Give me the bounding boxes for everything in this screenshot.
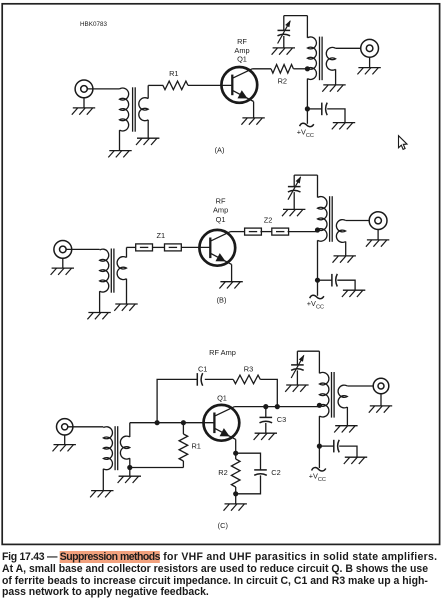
label R1 (C)	[191, 441, 200, 450]
svg-text:RF: RF	[237, 37, 247, 46]
ground	[114, 304, 137, 311]
wire	[345, 242, 347, 256]
label Q1 (C)	[217, 394, 227, 403]
capacitor C2	[254, 470, 267, 475]
wire	[283, 36, 285, 48]
svg-text:Z1: Z1	[156, 231, 165, 240]
wire	[317, 175, 319, 197]
connector J4 (output B)	[369, 212, 387, 230]
wire	[119, 130, 121, 151]
svg-text:+VCC: +VCC	[307, 299, 324, 311]
wire	[102, 469, 104, 491]
transformer T1 primary (A)	[120, 88, 129, 131]
svg-text:C2: C2	[271, 468, 280, 477]
wire	[336, 47, 361, 49]
svg-text:RF Amp: RF Amp	[209, 348, 236, 357]
wire	[62, 258, 64, 268]
connector J3 (input B)	[54, 241, 72, 259]
wire	[235, 494, 237, 504]
wire	[306, 16, 308, 38]
svg-text:R1: R1	[169, 69, 178, 78]
wire	[318, 351, 320, 373]
transformer T3 secondary (B)	[117, 247, 126, 279]
wire	[294, 174, 317, 176]
node (C3 tap)	[263, 404, 268, 409]
wire	[380, 394, 382, 406]
resistor R1 (C)	[179, 423, 188, 468]
node (collector tap B)	[315, 227, 320, 232]
node (bypass B)	[315, 278, 320, 283]
wire	[346, 407, 348, 426]
ground	[118, 476, 141, 483]
wire	[293, 175, 295, 187]
ferrite bead Z2a	[245, 228, 262, 235]
wire	[283, 16, 285, 31]
connector J5 (input C)	[56, 419, 72, 435]
variable capacitor (tank C)	[291, 355, 304, 378]
resistor R3	[233, 375, 260, 384]
ground	[366, 240, 389, 247]
transformer T6 secondary (C)	[338, 385, 347, 408]
label C2	[271, 468, 280, 477]
svg-text:Z2: Z2	[264, 215, 273, 224]
wire	[68, 426, 104, 428]
capacitor C3	[260, 417, 273, 422]
wire	[296, 370, 298, 385]
node (base/R1 C)	[181, 420, 186, 425]
ground	[254, 433, 277, 440]
transformer T1 core (A)	[133, 87, 136, 131]
svg-text:+VCC: +VCC	[297, 128, 314, 140]
transformer T3 core (B)	[111, 249, 114, 293]
wire	[327, 109, 345, 123]
transformer T5 core (C)	[115, 426, 118, 470]
wire	[129, 458, 131, 467]
wire	[265, 423, 267, 433]
wire	[126, 279, 128, 304]
transformer T6 core (C)	[332, 372, 335, 418]
svg-text:R2: R2	[218, 468, 227, 477]
label (A)	[215, 146, 225, 155]
wire	[129, 468, 131, 477]
svg-text:C1: C1	[198, 364, 207, 373]
label Amp	[234, 46, 249, 55]
label RF Amp (C)	[209, 348, 236, 357]
svg-text:(A): (A)	[215, 146, 225, 155]
label C1	[198, 364, 207, 373]
label RF	[237, 37, 247, 46]
supply +VCC (C)	[309, 468, 326, 483]
ground	[241, 118, 264, 125]
wire	[148, 84, 163, 86]
label RF (B)	[216, 196, 226, 205]
transformer T4 primary (B)	[318, 197, 328, 242]
ground	[53, 445, 76, 452]
supply +VCC (B)	[307, 295, 324, 310]
label R1	[169, 69, 178, 78]
ground	[72, 108, 95, 115]
wire	[347, 385, 373, 387]
svg-text:R1: R1	[191, 441, 200, 450]
wire	[297, 350, 319, 352]
wire	[253, 68, 272, 70]
wire	[317, 240, 319, 295]
wire	[236, 475, 261, 493]
ground	[344, 457, 367, 464]
ground	[224, 504, 247, 511]
wire	[83, 98, 85, 108]
wire	[127, 246, 136, 248]
wire	[157, 379, 197, 422]
ferrite bead Z2b	[272, 228, 289, 235]
node (bypass C)	[317, 444, 322, 449]
wire	[231, 231, 246, 233]
wire	[147, 120, 149, 138]
wire	[319, 445, 333, 447]
mouse cursor	[399, 136, 408, 150]
wire	[130, 467, 184, 469]
wire	[253, 102, 255, 118]
transformer T5 secondary (C)	[120, 423, 129, 459]
wire	[346, 220, 370, 222]
transformer T3 primary (B)	[100, 249, 109, 292]
wire	[288, 231, 318, 233]
wire	[369, 57, 371, 67]
label Q1	[237, 55, 247, 64]
wire	[377, 230, 379, 240]
svg-text:R3: R3	[244, 364, 253, 373]
ferrite bead Z1b	[165, 244, 182, 251]
node (bypass A)	[305, 106, 310, 111]
transformer T1 secondary (A)	[139, 85, 148, 120]
wire	[296, 351, 298, 365]
wire	[64, 435, 66, 445]
svg-text:Q1: Q1	[237, 55, 247, 64]
svg-text:HBK0783: HBK0783	[80, 21, 107, 28]
label Q1 (B)	[216, 215, 226, 224]
svg-text:Q1: Q1	[217, 394, 227, 403]
label R3	[244, 364, 253, 373]
wire	[231, 264, 233, 281]
label C3	[277, 415, 286, 424]
svg-text:RF: RF	[216, 196, 226, 205]
transformer T4 secondary (B)	[336, 220, 345, 243]
label HBK0783	[80, 21, 107, 28]
node (emitter node C)	[233, 451, 238, 456]
capacitor C1	[197, 373, 202, 386]
wire	[293, 68, 307, 70]
node (collector tap A)	[305, 66, 310, 71]
transformer T4 core (B)	[330, 196, 333, 242]
wire	[236, 453, 261, 470]
svg-text:Amp: Amp	[234, 46, 249, 55]
transistor Q1 (C)	[204, 405, 240, 441]
svg-text:C3: C3	[277, 415, 286, 424]
wire	[130, 422, 215, 424]
wire	[182, 246, 211, 248]
ground	[219, 282, 242, 289]
transformer T6 primary (C)	[319, 372, 329, 417]
resistor R2	[271, 65, 293, 74]
wire	[335, 69, 337, 85]
connector J6 (output C)	[373, 378, 389, 394]
ground	[272, 48, 295, 55]
ground	[322, 85, 345, 92]
label Z1	[156, 231, 165, 240]
ground	[90, 491, 113, 498]
transistor Q1 (B)	[199, 230, 235, 266]
wire	[87, 88, 119, 90]
wire	[306, 79, 308, 124]
label (B)	[217, 296, 227, 305]
svg-text:Amp: Amp	[213, 206, 228, 215]
transformer T5 primary (C)	[103, 427, 112, 470]
resistor R1	[163, 81, 188, 90]
wire	[205, 378, 233, 380]
transistor Q1 (A)	[221, 67, 257, 103]
capacitor (bypass C)	[334, 440, 339, 453]
svg-text:(C): (C)	[218, 521, 228, 530]
variable capacitor (tank A)	[278, 20, 291, 43]
svg-text:+VCC: +VCC	[309, 471, 326, 483]
supply +VCC (A)	[297, 123, 314, 139]
node (feedback node C)	[275, 404, 280, 409]
variable capacitor (tank B)	[288, 176, 301, 199]
wire	[318, 279, 332, 281]
label (C)	[218, 521, 228, 530]
ground	[285, 385, 308, 392]
node (emitter gnd node C)	[233, 491, 238, 496]
wire	[307, 108, 321, 110]
ground	[136, 138, 159, 145]
wire	[337, 280, 355, 290]
wire	[293, 192, 295, 209]
svg-text:Q1: Q1	[216, 215, 226, 224]
label Amp (B)	[213, 206, 228, 215]
transformer T2 secondary (A)	[326, 47, 335, 70]
wire	[260, 379, 277, 406]
capacitor (bypass B)	[332, 274, 337, 287]
ground	[332, 123, 355, 130]
ground	[87, 313, 110, 320]
wire	[339, 446, 357, 457]
ground	[108, 151, 131, 158]
ground	[51, 268, 74, 275]
node (tank tap C)	[317, 403, 322, 408]
transformer T2 primary (A)	[307, 37, 316, 80]
ground	[333, 256, 356, 263]
wire	[318, 416, 320, 468]
node (cold node C)	[127, 465, 132, 470]
wire	[235, 406, 320, 408]
ground	[369, 406, 392, 413]
wire	[66, 248, 100, 250]
wire	[260, 231, 272, 233]
label R2 (C)	[218, 468, 227, 477]
ground	[342, 290, 365, 297]
node (feedback tap C)	[155, 420, 160, 425]
wire	[188, 84, 232, 86]
connector J2 (output A)	[361, 39, 379, 57]
wire	[284, 15, 308, 17]
wire	[235, 439, 237, 453]
svg-text:(B): (B)	[217, 296, 227, 305]
ground	[357, 68, 380, 75]
capacitor (bypass A)	[322, 103, 327, 116]
transformer T2 core (A)	[320, 37, 323, 81]
svg-text:R2: R2	[278, 76, 287, 85]
wire	[99, 291, 101, 312]
resistor R2 (C)	[231, 453, 240, 494]
wire	[265, 407, 267, 418]
label Z2	[264, 215, 273, 224]
wire	[153, 246, 165, 248]
connector J1 (input A)	[75, 80, 93, 98]
ferrite bead Z1a	[136, 244, 153, 251]
label R2	[278, 76, 287, 85]
ground	[334, 426, 357, 433]
ground	[282, 209, 305, 216]
